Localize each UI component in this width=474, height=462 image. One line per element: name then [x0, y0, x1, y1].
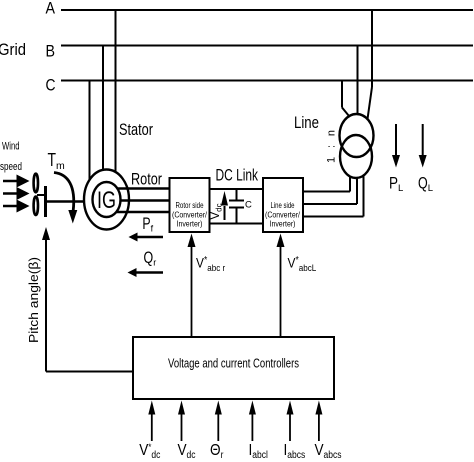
- svg-text:IG: IG: [97, 187, 116, 214]
- svg-text:C: C: [245, 200, 252, 211]
- svg-text:DC Link: DC Link: [216, 166, 259, 185]
- svg-text:Inverter): Inverter): [270, 220, 296, 229]
- svg-text:Voltage and current Controller: Voltage and current Controllers: [168, 355, 299, 370]
- svg-text:Rotor: Rotor: [131, 170, 162, 189]
- svg-text:Rotor side: Rotor side: [176, 201, 204, 210]
- svg-text:Line: Line: [294, 113, 319, 132]
- svg-text:Stator: Stator: [119, 120, 153, 139]
- svg-text:(Converter/: (Converter/: [172, 211, 208, 220]
- svg-text:Inverter): Inverter): [177, 220, 203, 229]
- svg-text:1 : n: 1 : n: [326, 130, 338, 163]
- svg-text:(Converter/: (Converter/: [265, 211, 301, 220]
- svg-text:B: B: [46, 42, 56, 61]
- svg-text:Wind: Wind: [2, 141, 20, 153]
- svg-text:Pitch angle(β): Pitch angle(β): [26, 257, 41, 343]
- svg-text:Line side: Line side: [271, 201, 295, 210]
- svg-text:speed: speed: [0, 161, 22, 173]
- svg-text:Grid: Grid: [0, 40, 26, 59]
- svg-text:C: C: [46, 76, 56, 95]
- svg-text:A: A: [46, 0, 56, 18]
